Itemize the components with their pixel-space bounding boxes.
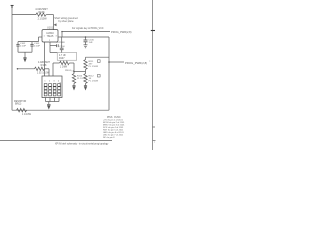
wire output bus: [62, 36, 109, 38]
svg-text:0.1UF: 0.1UF: [34, 46, 41, 48]
wire zigzag feed: [17, 68, 19, 70]
wire IC gnd to header: [44, 42, 46, 76]
capacitor C106: [84, 36, 88, 44]
wire: [73, 63, 75, 72]
svg-text:PL 1/10W: PL 1/10W: [89, 81, 99, 83]
pin numbers J101: [44, 81, 60, 83]
svg-text:PROG_PWR(2,8): PROG_PWR(2,8): [111, 30, 132, 34]
svg-text:1UF: 1UF: [89, 42, 94, 44]
svg-text:1.02 1/10W: 1.02 1/10W: [37, 72, 50, 75]
border frame right: [152, 0, 154, 150]
power symbol VCC: [11, 5, 14, 8]
svg-text:1 1/8W: 1 1/8W: [60, 66, 68, 68]
wire pin bus: [46, 101, 60, 103]
svg-text:R107: R107: [59, 58, 65, 60]
wire: [85, 69, 87, 73]
ground: [47, 102, 51, 109]
wire U101 pin1: [39, 36, 43, 38]
wire U101 pin3: [58, 36, 62, 38]
wire cap input node: [18, 41, 39, 43]
svg-text:U101: U101: [47, 27, 54, 30]
ground: [84, 83, 87, 89]
wire: [53, 15, 55, 30]
svg-text:C104: C104: [59, 46, 65, 48]
wire header pin up: [52, 63, 54, 76]
svg-text:0.1UF: 0.1UF: [20, 46, 27, 48]
wire: [44, 68, 49, 70]
pin grid J101: [44, 84, 60, 96]
capacitor C105: [60, 37, 64, 53]
note text: [54, 17, 78, 23]
border frame bottom: [0, 140, 112, 142]
ground: [84, 45, 88, 48]
svg-text:PROG_PWR(2,8): PROG_PWR(2,8): [125, 61, 147, 65]
resistor R113: [17, 109, 27, 112]
capacitor C104: [50, 44, 58, 52]
wire PROG_PWR top: [62, 31, 110, 33]
svg-text:PROG_x: PROG_x: [65, 70, 75, 72]
svg-text:78L05: 78L05: [47, 35, 54, 38]
svg-text:NC rfo pin 8: NC rfo pin 8: [103, 137, 115, 139]
svg-text:J101: J101: [60, 81, 62, 87]
wire: [86, 56, 110, 58]
wire: [61, 32, 63, 37]
svg-text:1 1/10W: 1 1/10W: [22, 113, 32, 116]
wire divider tap: [74, 71, 86, 73]
table pin functions: [103, 117, 125, 139]
wire left rail vertical: [11, 8, 13, 110]
resistor R112: [84, 74, 87, 84]
resistor R109: [60, 61, 70, 64]
value label R106: [35, 8, 48, 20]
wire U101 pin2: [49, 42, 51, 53]
svg-text:XP IN brief schematic - in-cir: XP IN brief schematic - in-circuit seria…: [55, 142, 109, 145]
wire top horizontal: [12, 14, 36, 16]
wire: [53, 62, 60, 64]
svg-text:4.7 UF: 4.7 UF: [59, 55, 66, 57]
capacitor C102: [16, 42, 19, 53]
wire PROG_PWR mid: [108, 61, 110, 63]
wire cap bottoms: [18, 51, 32, 53]
net flag: [54, 23, 57, 26]
svg-text:0.47UFF: 0.47UFF: [57, 42, 66, 44]
resistor R111: [84, 60, 87, 70]
resistor R106: [36, 13, 46, 16]
node junction: [73, 71, 75, 73]
ground: [23, 52, 26, 61]
wire header pins bottom: [45, 98, 47, 102]
connector J101: [42, 76, 62, 98]
svg-text:BR(2): BR(2): [15, 103, 21, 106]
svg-text:R108: R108: [41, 64, 47, 67]
svg-text:R106: R106: [39, 11, 46, 14]
svg-text:For signals key to PROG_VCC: For signals key to PROG_VCC: [72, 27, 104, 30]
wire divider top: [85, 57, 87, 59]
wire: [48, 69, 50, 76]
resistor R108: [35, 67, 45, 70]
svg-text:PL 1/10W: PL 1/10W: [89, 66, 99, 68]
capacitor C103: [30, 42, 33, 53]
wire bottom rail: [12, 109, 109, 111]
resistor R110: [72, 72, 75, 86]
wire: [46, 14, 53, 16]
wire: [38, 37, 40, 42]
wire right vertical: [108, 37, 110, 110]
wire: [69, 62, 74, 64]
regulator U101: [42, 30, 58, 42]
svg-text:by silver plane: by silver plane: [58, 20, 74, 23]
svg-text:1 1/10W: 1 1/10W: [37, 17, 47, 20]
value label box R107: [57, 53, 76, 61]
ground: [72, 86, 75, 90]
